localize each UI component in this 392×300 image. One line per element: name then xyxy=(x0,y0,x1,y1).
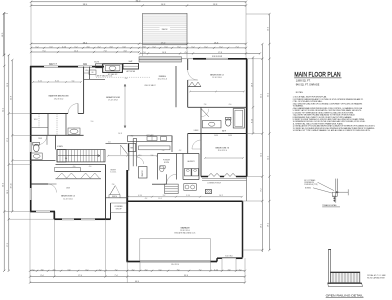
svg-text:5'-2: 5'-2 xyxy=(75,47,78,49)
svg-text:BEDROOM #4: BEDROOM #4 xyxy=(61,196,75,198)
bedroom2 dim xyxy=(190,91,244,93)
svg-text:16'-0 X 8'-0: 16'-0 X 8'-0 xyxy=(171,264,179,266)
bedroom3 walls xyxy=(200,134,202,177)
svg-text:17'-4 X 19'-8: 17'-4 X 19'-8 xyxy=(108,100,118,102)
railing base xyxy=(328,283,363,287)
svg-text:6'-2: 6'-2 xyxy=(178,47,181,49)
svg-text:5'-8: 5'-8 xyxy=(123,47,126,49)
svg-text:4'-2: 4'-2 xyxy=(132,269,135,271)
svg-text:11'-4: 11'-4 xyxy=(158,198,161,200)
svg-text:9'-0: 9'-0 xyxy=(43,51,46,53)
svg-text:5'-8: 5'-8 xyxy=(151,155,154,157)
svg-text:5'-8: 5'-8 xyxy=(68,269,71,271)
svg-text:4'-2: 4'-2 xyxy=(98,47,101,49)
garage outer walls and doors xyxy=(126,170,128,262)
right dim outermost xyxy=(268,14,270,250)
svg-text:5'-0: 5'-0 xyxy=(108,142,111,144)
dim row B above wall xyxy=(31,47,246,49)
svg-text:4'-2: 4'-2 xyxy=(145,198,148,200)
svg-text:5'-0: 5'-0 xyxy=(165,47,168,49)
svg-text:6'-2: 6'-2 xyxy=(220,47,223,49)
svg-text:2868: 2868 xyxy=(66,188,70,190)
svg-text:3'-8: 3'-8 xyxy=(143,47,146,49)
powder room xyxy=(158,153,200,155)
svg-text:13'-0 X 16'-0: 13'-0 X 16'-0 xyxy=(54,98,64,100)
svg-text:11'-0 X 12'-0: 11'-0 X 12'-0 xyxy=(63,198,72,200)
dimension line overall width 86'-0 xyxy=(31,1,246,3)
svg-text:12'-0: 12'-0 xyxy=(74,51,78,53)
svg-text:10'-2: 10'-2 xyxy=(219,195,223,197)
svg-text:MASTER BEDROOM: MASTER BEDROOM xyxy=(49,95,69,98)
svg-text:7'-4: 7'-4 xyxy=(115,275,118,277)
svg-text:23'-8 X 31'-6: 23'-8 X 31'-6 xyxy=(180,230,190,232)
svg-text:10'-0 X 11'-6: 10'-0 X 11'-6 xyxy=(158,79,167,81)
svg-text:6'-0 CLG.: 6'-0 CLG. xyxy=(110,172,117,174)
svg-text:NOTES:: NOTES: xyxy=(296,92,304,94)
great room vertical dim xyxy=(124,84,126,128)
svg-text:3'-10: 3'-10 xyxy=(214,269,218,271)
front wall left segment xyxy=(30,211,36,213)
bottom dim row 2 xyxy=(30,276,245,278)
bedroom2 closet xyxy=(188,86,201,88)
svg-text:4'-2: 4'-2 xyxy=(179,150,182,152)
svg-text:39'-4: 39'-4 xyxy=(184,275,188,277)
svg-text:15'-8: 15'-8 xyxy=(7,83,9,87)
svg-text:25'-4: 25'-4 xyxy=(268,93,270,97)
svg-text:11'-6 X 10'-0: 11'-6 X 10'-0 xyxy=(212,77,221,79)
svg-text:66'-0: 66'-0 xyxy=(135,281,139,283)
bottom dim row 1 xyxy=(30,270,245,272)
svg-text:16'-6: 16'-6 xyxy=(251,83,253,87)
svg-text:9068 SLDR: 9068 SLDR xyxy=(49,64,58,66)
left dim outer xyxy=(3,13,5,271)
svg-text:6'-2: 6'-2 xyxy=(205,47,208,49)
kitchen right wall xyxy=(171,136,173,152)
media niche xyxy=(96,64,103,68)
railing post xyxy=(329,249,331,283)
svg-text:7'-8: 7'-8 xyxy=(104,51,107,53)
master closet walls xyxy=(31,134,84,136)
svg-text:16'-10: 16'-10 xyxy=(10,184,12,189)
front wall bedroom segment xyxy=(54,218,62,220)
svg-text:2'-2: 2'-2 xyxy=(131,136,134,138)
svg-text:22'-8: 22'-8 xyxy=(10,96,12,100)
svg-text:3'-8: 3'-8 xyxy=(41,269,44,271)
svg-text:11'-6 X 11'-0: 11'-6 X 11'-0 xyxy=(218,150,227,152)
svg-text:4'-8: 4'-8 xyxy=(124,51,127,53)
svg-text:20'-0: 20'-0 xyxy=(2,183,4,187)
garage top dim row xyxy=(128,196,242,198)
svg-text:BEDROOM #2: BEDROOM #2 xyxy=(210,74,224,76)
bath2 fixtures xyxy=(188,106,247,108)
deck left extension line xyxy=(142,13,144,56)
svg-text:17'-0: 17'-0 xyxy=(7,138,9,142)
hall dim line xyxy=(108,155,157,157)
garage interior line xyxy=(139,239,141,261)
svg-text:14. INSTALL 5/8" TYPE X GWB AT: 14. INSTALL 5/8" TYPE X GWB AT GARAGE CL… xyxy=(293,129,371,132)
svg-text:14'-4: 14'-4 xyxy=(268,156,270,160)
front wall step xyxy=(53,212,55,220)
window seat niche xyxy=(123,64,139,70)
svg-text:5036 SLIDER: 5036 SLIDER xyxy=(212,56,223,58)
svg-text:4'-0: 4'-0 xyxy=(73,166,76,168)
svg-text:7'-2: 7'-2 xyxy=(115,269,118,271)
svg-text:2868: 2868 xyxy=(38,138,42,140)
svg-text:25'-4: 25'-4 xyxy=(261,94,263,98)
svg-text:NOSING: NOSING xyxy=(305,187,312,189)
svg-text:9'-2: 9'-2 xyxy=(163,195,166,197)
svg-text:COVE MOLD (TYP): COVE MOLD (TYP) xyxy=(304,184,318,186)
deck with hatching xyxy=(143,13,187,45)
entry steps xyxy=(165,184,179,193)
svg-text:24'-4: 24'-4 xyxy=(2,108,4,112)
dim row C above wall xyxy=(31,51,139,53)
left dim deck depth xyxy=(3,13,5,55)
svg-text:7'-4: 7'-4 xyxy=(236,47,239,49)
entry closet shelves xyxy=(106,197,128,199)
svg-text:2'-8: 2'-8 xyxy=(162,150,165,152)
svg-text:2'-8: 2'-8 xyxy=(204,104,207,106)
svg-text:1X8 RISER W/: 1X8 RISER W/ xyxy=(304,182,315,184)
svg-text:10'-8: 10'-8 xyxy=(118,133,122,135)
top wall bedroom 2 xyxy=(193,58,206,60)
svg-text:ENTRY: ENTRY xyxy=(111,170,117,172)
svg-text:5'-10: 5'-10 xyxy=(186,195,190,197)
svg-text:5'-0: 5'-0 xyxy=(91,121,94,123)
svg-text:5'-9: 5'-9 xyxy=(50,47,53,49)
svg-text:GREAT ROOM: GREAT ROOM xyxy=(106,96,120,99)
svg-text:4'-10: 4'-10 xyxy=(138,195,142,197)
porch slab lines xyxy=(202,178,247,180)
bedroom4 walls and door xyxy=(31,183,48,185)
sliding door band to deck xyxy=(139,57,182,62)
svg-text:BENCH: BENCH xyxy=(112,196,117,198)
svg-text:7'-2: 7'-2 xyxy=(199,269,202,271)
bottom dim row 3 xyxy=(30,282,245,284)
top wall master bedroom xyxy=(30,66,44,68)
svg-text:17'-0: 17'-0 xyxy=(78,275,82,277)
svg-text:6'-10: 6'-10 xyxy=(38,80,42,82)
svg-text:4'-8: 4'-8 xyxy=(110,47,113,49)
laundry room xyxy=(182,154,184,180)
svg-text:4'-4: 4'-4 xyxy=(53,269,56,271)
svg-text:8'-4: 8'-4 xyxy=(41,275,44,277)
svg-text:2'-8: 2'-8 xyxy=(143,52,146,54)
svg-text:7'-0: 7'-0 xyxy=(177,269,180,271)
porch post xyxy=(205,190,211,194)
svg-text:4'-10: 4'-10 xyxy=(62,47,66,49)
svg-text:POWDER: POWDER xyxy=(163,160,171,162)
left dim mid xyxy=(8,55,10,271)
left extension ticks xyxy=(4,211,31,213)
svg-text:3'-0: 3'-0 xyxy=(239,269,242,271)
svg-text:LINEN: LINEN xyxy=(194,130,199,132)
svg-text:10'-0: 10'-0 xyxy=(268,27,270,31)
svg-text:KITCHEN: KITCHEN xyxy=(147,135,155,137)
svg-text:10'-8: 10'-8 xyxy=(162,52,166,54)
covered stoop xyxy=(111,203,127,212)
dimension line second row xyxy=(31,5,246,7)
svg-text:8'-10: 8'-10 xyxy=(251,119,253,123)
master bedroom interior dim xyxy=(33,81,81,83)
svg-text:5'-4: 5'-4 xyxy=(159,269,162,271)
svg-text:4'-0: 4'-0 xyxy=(89,166,92,168)
svg-text:GARAGE: GARAGE xyxy=(180,226,190,229)
bottom extension lines xyxy=(29,212,31,283)
master bedroom walls and door xyxy=(83,67,85,114)
svg-text:17'-2: 17'-2 xyxy=(7,243,9,247)
svg-text:1,869 SQ. FT.: 1,869 SQ. FT. xyxy=(296,79,311,82)
railing balusters xyxy=(330,272,360,283)
center hall walls xyxy=(106,142,128,144)
svg-text:18'-2: 18'-2 xyxy=(7,190,9,194)
svg-text:2'-4: 2'-4 xyxy=(32,269,35,271)
svg-text:5'-2: 5'-2 xyxy=(36,47,39,49)
svg-text:STOOP: STOOP xyxy=(116,208,123,210)
svg-text:MAIN FLOOR PLAN: MAIN FLOOR PLAN xyxy=(294,72,340,79)
fireplace xyxy=(103,64,123,73)
entry and front door xyxy=(167,174,177,184)
right dim inner xyxy=(252,58,254,134)
svg-text:4'-0: 4'-0 xyxy=(145,269,148,271)
svg-text:NICHE: NICHE xyxy=(94,62,99,64)
svg-text:TREADS DETAIL: TREADS DETAIL xyxy=(322,204,337,207)
svg-text:2'-8: 2'-8 xyxy=(112,184,115,186)
svg-text:4'-8: 4'-8 xyxy=(228,269,231,271)
svg-text:ROOM: ROOM xyxy=(164,162,169,164)
svg-text:5036: 5036 xyxy=(214,135,218,137)
svg-text:940 SQ. FT. GARAGE: 940 SQ. FT. GARAGE xyxy=(296,84,320,87)
stairs with treads xyxy=(57,150,105,162)
deck right extension line xyxy=(186,13,188,58)
svg-text:16'-4: 16'-4 xyxy=(261,224,263,228)
pantry xyxy=(139,167,148,179)
laundry tub xyxy=(184,184,197,191)
svg-text:6'-2: 6'-2 xyxy=(86,269,89,271)
svg-text:3050: 3050 xyxy=(83,64,87,66)
right dim outer xyxy=(261,44,263,252)
svg-text:14'-4: 14'-4 xyxy=(261,153,263,157)
svg-text:COVERED PORCH: COVERED PORCH xyxy=(207,183,221,185)
svg-text:5'-2: 5'-2 xyxy=(153,47,156,49)
svg-text:4'-8: 4'-8 xyxy=(125,78,128,80)
svg-text:5'-2: 5'-2 xyxy=(192,47,195,49)
left dim inner xyxy=(11,60,13,212)
front wall stoop side xyxy=(110,203,112,219)
svg-text:4'-4: 4'-4 xyxy=(185,52,188,54)
linen closet xyxy=(84,78,105,80)
bedroom3 dim xyxy=(205,157,243,159)
svg-text:LIN: LIN xyxy=(85,70,87,72)
svg-text:5036: 5036 xyxy=(228,135,232,137)
svg-text:16'-4: 16'-4 xyxy=(268,223,270,227)
hall closets with bifold doors xyxy=(56,164,106,166)
svg-text:W.I.C.: W.I.C. xyxy=(34,119,39,121)
svg-text:BEDROOM #3: BEDROOM #3 xyxy=(216,147,230,149)
svg-text:17'-8: 17'-8 xyxy=(218,52,222,54)
svg-text:3'-0: 3'-0 xyxy=(139,155,142,157)
dim row A above wall xyxy=(31,43,246,45)
svg-text:8'-0 X 8'-0: 8'-0 X 8'-0 xyxy=(225,256,232,258)
right outer wall xyxy=(246,59,248,177)
master bath fixtures xyxy=(31,160,56,162)
bedroom3 front wall with windows xyxy=(201,176,208,178)
hall walls bedroom2 door xyxy=(175,66,177,107)
left outer wall xyxy=(30,66,32,142)
dashed ceiling line xyxy=(96,76,150,78)
kitchen counters island fridge xyxy=(128,136,173,142)
svg-text:8'-2: 8'-2 xyxy=(261,189,263,192)
svg-text:OPEN RAILING DETAIL: OPEN RAILING DETAIL xyxy=(326,293,364,297)
svg-text:8'-10: 8'-10 xyxy=(55,80,59,82)
wall opening segment xyxy=(182,58,194,60)
svg-text:4'-6: 4'-6 xyxy=(87,47,90,49)
svg-text:DECK: DECK xyxy=(162,29,168,31)
svg-text:3'-2: 3'-2 xyxy=(99,269,102,271)
svg-text:6'-0: 6'-0 xyxy=(229,104,232,106)
svg-text:5'-4: 5'-4 xyxy=(72,80,75,82)
